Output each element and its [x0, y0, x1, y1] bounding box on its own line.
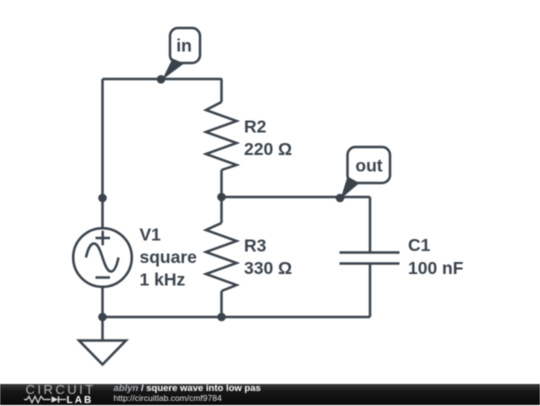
svg-text:in: in	[176, 36, 192, 56]
svg-text:R2: R2	[244, 117, 267, 137]
svg-text:220 Ω: 220 Ω	[244, 139, 292, 159]
svg-text:330 Ω: 330 Ω	[244, 258, 292, 278]
svg-text:R3: R3	[244, 236, 267, 256]
svg-text:square: square	[140, 247, 198, 267]
svg-text:out: out	[355, 156, 382, 176]
svg-text:1 kHz: 1 kHz	[140, 270, 186, 290]
svg-text:V1: V1	[140, 225, 162, 245]
svg-text:C1: C1	[408, 235, 431, 255]
svg-text:100 nF: 100 nF	[408, 258, 464, 278]
